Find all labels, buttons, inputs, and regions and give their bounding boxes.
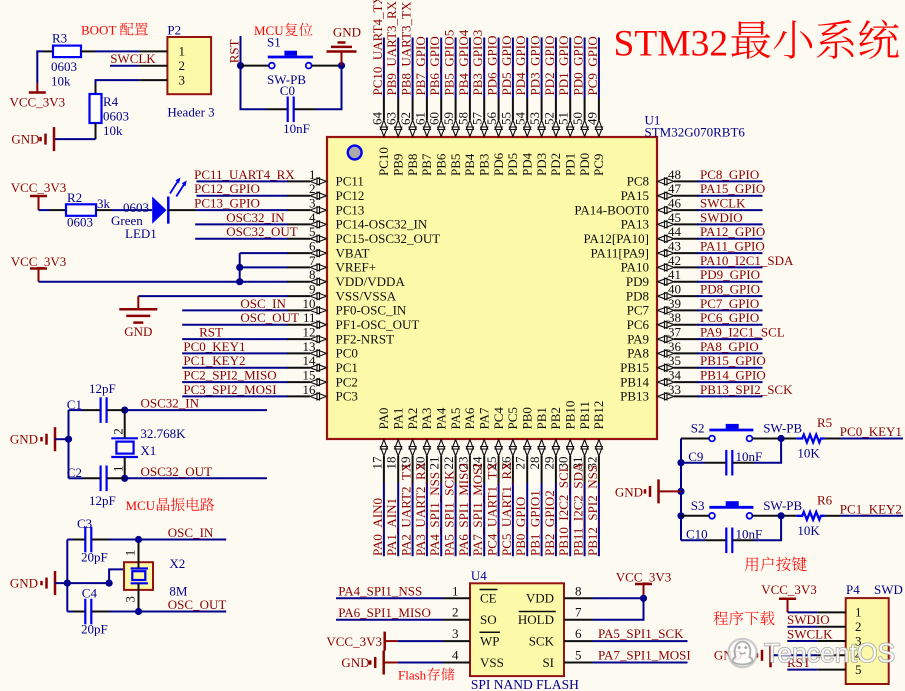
svg-text:6: 6: [309, 239, 316, 254]
svg-text:20pF: 20pF: [81, 550, 108, 565]
U1 pin 9 VSS/VSSA: [287, 282, 397, 304]
svg-text:SW-PB: SW-PB: [763, 498, 802, 513]
switch S2 SW-PB: [691, 421, 803, 442]
svg-text:SWD: SWD: [874, 582, 903, 597]
svg-text:SWDIO: SWDIO: [700, 210, 743, 225]
net label PC11_UART4_RX: [194, 167, 295, 182]
U1 pin 27 PB0: [513, 407, 535, 483]
svg-text:OSC32_OUT: OSC32_OUT: [141, 464, 213, 479]
U1 pin 7 VREF+: [287, 253, 376, 275]
net label OSC32_OUT: [195, 224, 298, 239]
svg-text:56: 56: [484, 112, 499, 126]
svg-text:C0: C0: [280, 83, 295, 98]
U1 pin 51 PD1: [556, 98, 578, 176]
net label PD5_GPIO: [499, 36, 514, 98]
wire S2/S3 left rail: [677, 439, 684, 541]
svg-text:PC8_GPIO: PC8_GPIO: [700, 167, 759, 182]
svg-text:1: 1: [123, 550, 138, 557]
net label PC13_GPIO: [168, 196, 287, 211]
svg-text:36: 36: [668, 339, 682, 354]
net label PA11_GPIO: [697, 239, 765, 254]
svg-text:PB11_I2C2_SDA: PB11_I2C2_SDA: [571, 462, 586, 556]
svg-text:PD2: PD2: [548, 153, 563, 176]
caption 程序下载: [713, 611, 774, 625]
svg-text:PD0_GPIO: PD0_GPIO: [571, 36, 586, 96]
svg-text:9: 9: [309, 282, 316, 297]
svg-text:GND: GND: [124, 324, 152, 339]
U1 pin 14 PC1: [287, 353, 358, 375]
svg-text:1: 1: [111, 466, 126, 473]
net label PB13_SPI2_SCK: [697, 382, 793, 397]
net label PA8_GPIO: [697, 339, 763, 354]
net label PB0_GPIO: [513, 483, 528, 556]
svg-text:17: 17: [369, 456, 384, 470]
svg-text:13: 13: [303, 339, 316, 354]
U1 pin 19 PA2: [398, 408, 420, 483]
svg-text:PB10_I2C2_SCL: PB10_I2C2_SCL: [556, 464, 571, 556]
net label SWDIO (P4): [787, 612, 830, 627]
net label PA6_SPI1_MISO: [336, 605, 443, 620]
wire C0 loop left: [241, 66, 288, 110]
svg-text:VREF+: VREF+: [336, 260, 377, 275]
svg-text:VCC_3V3: VCC_3V3: [326, 634, 382, 649]
net label PA1_AIN1: [384, 483, 399, 556]
net label PA7_SPI1_MOSI: [470, 463, 485, 556]
svg-text:PA0: PA0: [376, 408, 391, 430]
svg-text:STM32: STM32: [614, 24, 729, 65]
crystal X2 8M: [123, 540, 188, 612]
net label OSC_OUT: [182, 310, 299, 325]
svg-text:S2: S2: [691, 421, 705, 436]
svg-text:54: 54: [513, 112, 528, 126]
capacitor C2: [67, 465, 116, 508]
capacitor C0: [280, 83, 310, 136]
U1 pin 16 PC3: [287, 382, 358, 404]
U1 pin 12 PF2-NRST: [287, 325, 394, 347]
net label RST (P4): [787, 655, 818, 670]
U1 pin 28 PB1: [527, 407, 549, 483]
svg-text:R5: R5: [817, 415, 832, 430]
svg-text:5: 5: [575, 648, 582, 663]
caption 用户按键: [745, 557, 807, 572]
svg-text:64: 64: [369, 112, 384, 126]
net label PC2_SPI2_MISO: [182, 368, 287, 383]
svg-text:1: 1: [179, 44, 186, 59]
svg-text:20pF: 20pF: [81, 622, 108, 637]
svg-text:PC2: PC2: [336, 374, 358, 389]
svg-text:53: 53: [527, 112, 542, 125]
svg-text:PA9: PA9: [627, 331, 649, 346]
svg-text:STM32G070RBT6: STM32G070RBT6: [645, 125, 746, 140]
svg-text:GND: GND: [11, 131, 39, 146]
net label SWCLK: [697, 196, 763, 211]
svg-text:PA10_I2C1_SDA: PA10_I2C1_SDA: [700, 253, 794, 268]
svg-text:PC11_UART4_RX: PC11_UART4_RX: [194, 167, 295, 182]
svg-text:SI: SI: [542, 655, 554, 670]
net label OSC_IN: [182, 296, 287, 311]
svg-text:C10: C10: [686, 527, 708, 542]
svg-text:PB1_GPIO1: PB1_GPIO1: [528, 490, 543, 556]
ground (U1 VSS): [119, 309, 157, 339]
svg-text:10k: 10k: [51, 74, 71, 89]
net label OSC32_IN: [195, 210, 287, 225]
wire R2 to LED: [96, 209, 152, 211]
svg-text:PC1_KEY2: PC1_KEY2: [840, 501, 902, 516]
net label PC12_GPIO: [194, 181, 287, 196]
svg-text:PC13: PC13: [336, 202, 365, 217]
svg-text:VSS/VSSA: VSS/VSSA: [336, 288, 397, 303]
svg-text:1: 1: [855, 605, 862, 620]
U1 pin 55 PD5: [498, 98, 520, 176]
svg-text:PD6_GPIO: PD6_GPIO: [485, 36, 500, 96]
svg-text:CE: CE: [480, 591, 497, 606]
wire VSS to GND: [138, 296, 287, 309]
svg-text:PB3_GPIO3: PB3_GPIO3: [470, 30, 485, 96]
svg-text:GND: GND: [615, 485, 643, 500]
svg-text:PB12: PB12: [591, 401, 606, 430]
svg-text:PD2_GPIO: PD2_GPIO: [542, 36, 557, 96]
net label PD3_GPIO: [528, 36, 543, 98]
net label SWCLK: [110, 51, 156, 66]
svg-text:PB7_GPIO: PB7_GPIO: [413, 36, 428, 95]
svg-text:PB12_SPI2_NSS: PB12_SPI2_NSS: [585, 465, 600, 556]
svg-text:WP: WP: [480, 633, 500, 648]
capacitor C3: [77, 516, 108, 565]
capacitor C4: [81, 586, 108, 637]
wire S2 left: [681, 438, 709, 440]
svg-text:PC7_GPIO: PC7_GPIO: [700, 296, 759, 311]
svg-text:PC1: PC1: [336, 360, 358, 375]
svg-text:PC9_GPIO: PC9_GPIO: [585, 36, 600, 95]
svg-text:60: 60: [427, 112, 442, 125]
svg-text:PA5_SPI1_SCK: PA5_SPI1_SCK: [442, 470, 457, 556]
net label PB7_GPIO: [413, 36, 428, 98]
net label PC3_SPI2_MOSI: [182, 382, 287, 397]
net label PA4_SPI1_NSS: [427, 472, 442, 556]
U1 pin 30 PB10: [556, 401, 578, 483]
svg-text:3: 3: [452, 626, 459, 641]
wire S2 right to R5: [753, 435, 797, 442]
svg-text:LED1: LED1: [125, 226, 157, 241]
svg-text:R2: R2: [67, 190, 82, 205]
net label PC0_KEY1: [825, 424, 903, 439]
svg-text:PD0: PD0: [577, 153, 592, 176]
U1 pin 40 PD8: [626, 282, 699, 304]
caption MCU复位: [254, 23, 312, 38]
svg-text:45: 45: [668, 210, 681, 225]
U1 pin 47 PA15: [621, 181, 699, 203]
svg-text:PA10: PA10: [621, 260, 649, 275]
net label PC9_GPIO: [585, 36, 600, 98]
svg-text:35: 35: [668, 353, 681, 368]
svg-text:7: 7: [309, 253, 316, 268]
svg-text:18: 18: [384, 457, 399, 470]
wire X2 left rail: [64, 540, 85, 612]
svg-text:R3: R3: [52, 31, 67, 46]
U1 pin 20 PA3: [412, 408, 434, 483]
svg-text:PB15: PB15: [620, 360, 649, 375]
svg-text:0603: 0603: [67, 215, 93, 230]
U1 pin 39 PC7: [627, 296, 699, 318]
svg-text:TencentOS: TencentOS: [764, 638, 895, 668]
wire U4 VDD: [593, 595, 648, 602]
svg-text:PC14-OSC32_IN: PC14-OSC32_IN: [336, 217, 428, 232]
svg-text:Header 3: Header 3: [167, 105, 214, 120]
svg-text:PD5_GPIO: PD5_GPIO: [499, 36, 514, 96]
svg-text:PB9: PB9: [391, 154, 406, 176]
wire X2 case to GND: [106, 569, 125, 586]
svg-text:PB4_GPIO4: PB4_GPIO4: [456, 29, 471, 95]
svg-text:49: 49: [584, 112, 599, 125]
resistor R6: [796, 492, 832, 538]
svg-text:R6: R6: [817, 492, 833, 507]
svg-text:MCU: MCU: [126, 498, 156, 513]
net label PA6_SPI1_MISO: [456, 463, 471, 556]
resistor R4: [90, 94, 130, 138]
svg-text:PA11_GPIO: PA11_GPIO: [700, 239, 765, 254]
svg-text:62: 62: [398, 112, 413, 125]
svg-text:PD9_GPIO: PD9_GPIO: [700, 267, 760, 282]
svg-text:PD6: PD6: [491, 152, 506, 176]
svg-text:PD1: PD1: [563, 153, 578, 176]
svg-text:GND: GND: [333, 25, 361, 40]
wire VCC to R3: [37, 51, 53, 83]
svg-text:3: 3: [309, 196, 316, 211]
IC U1 STM32G070RBT6 body: [327, 113, 745, 440]
wire R4 to GND: [54, 123, 96, 139]
svg-text:PF1-OSC_OUT: PF1-OSC_OUT: [336, 317, 420, 332]
svg-text:40: 40: [668, 282, 681, 297]
U1 pin 15 PC2: [287, 368, 358, 390]
svg-text:PB5: PB5: [448, 154, 463, 176]
svg-text:8: 8: [575, 583, 582, 598]
svg-text:P4: P4: [846, 582, 860, 597]
svg-text:PB13_SPI2_SCK: PB13_SPI2_SCK: [700, 382, 793, 397]
svg-text:PA12_GPIO: PA12_GPIO: [700, 224, 765, 239]
svg-text:4: 4: [309, 210, 316, 225]
caption Flash存储: [398, 668, 455, 683]
svg-text:37: 37: [668, 325, 682, 340]
header P4: [818, 582, 903, 684]
svg-text:PC10: PC10: [376, 147, 391, 176]
net label SWCLK (P4): [787, 626, 833, 641]
svg-text:S1: S1: [267, 35, 281, 50]
svg-text:43: 43: [668, 239, 681, 254]
svg-text:PB1: PB1: [534, 407, 549, 429]
U1 pin 4 PC14-OSC32_IN: [287, 210, 428, 232]
svg-text:X2: X2: [169, 556, 185, 571]
svg-text:PC0_KEY1: PC0_KEY1: [183, 339, 245, 354]
svg-text:2: 2: [452, 605, 459, 620]
svg-text:OSC_OUT: OSC_OUT: [240, 310, 299, 325]
svg-text:VDD/VDDA: VDD/VDDA: [336, 274, 406, 289]
U1 pin 38 PC6: [627, 310, 699, 332]
net label PB1_GPIO1: [528, 483, 543, 556]
U1 pin 33 PB13: [620, 382, 698, 404]
svg-text:SWDIO: SWDIO: [787, 612, 830, 627]
U1 pin 46 PA14-BOOT0: [574, 196, 698, 218]
U1 pin 29 PB2: [541, 407, 563, 483]
svg-text:2: 2: [855, 619, 862, 634]
svg-text:PA6_SPI1_MISO: PA6_SPI1_MISO: [338, 605, 431, 620]
net label PB9_UART3_RX: [384, 0, 399, 98]
svg-text:8: 8: [309, 267, 316, 282]
U1 pin 37 PA9: [627, 325, 698, 347]
svg-text:27: 27: [513, 456, 528, 470]
U1 pin 50 PD0: [570, 98, 592, 176]
net label PB5_GPIO5: [442, 30, 457, 98]
net label PC8_GPIO: [697, 167, 763, 182]
svg-text:21: 21: [427, 457, 442, 470]
svg-text:PC4_UART1_TX: PC4_UART1_TX: [485, 462, 500, 556]
title STM32最小系统: [614, 20, 899, 65]
svg-text:PA7: PA7: [477, 407, 492, 429]
net label PD6_GPIO: [485, 36, 500, 98]
resistor R5: [796, 415, 832, 461]
svg-text:PB6_GPIO: PB6_GPIO: [427, 36, 442, 95]
svg-text:S3: S3: [691, 498, 705, 513]
wire C9 right: [733, 439, 781, 463]
svg-text:3: 3: [179, 72, 186, 87]
U1 pin 44 PA12[PA10]: [583, 224, 698, 246]
svg-text:OSC32_IN: OSC32_IN: [141, 396, 200, 411]
svg-text:PA14-BOOT0: PA14-BOOT0: [574, 202, 649, 217]
svg-text:61: 61: [412, 112, 427, 125]
net label PC5_UART1_RX: [499, 461, 514, 556]
svg-text:OSC_OUT: OSC_OUT: [168, 597, 227, 612]
svg-text:63: 63: [384, 112, 399, 125]
svg-text:VCC_3V3: VCC_3V3: [11, 254, 67, 269]
svg-text:3: 3: [123, 596, 138, 603]
U1 pin 42 PA10: [621, 253, 699, 275]
svg-text:PC12: PC12: [336, 188, 365, 203]
svg-text:PC3: PC3: [336, 389, 358, 404]
svg-text:38: 38: [668, 310, 681, 325]
svg-text:PB8_UART3_TX: PB8_UART3_TX: [399, 1, 414, 95]
svg-text:PB5_GPIO5: PB5_GPIO5: [442, 30, 457, 96]
svg-text:PD3: PD3: [534, 153, 549, 176]
svg-text:X1: X1: [140, 443, 156, 458]
IC U4 SPI NAND FLASH: [443, 568, 593, 691]
U1 pin 24 PA7: [470, 407, 492, 483]
U1 pin 32 PB12: [584, 401, 606, 483]
svg-text:32.768K: 32.768K: [140, 426, 186, 441]
svg-text:PA7_SPI1_MOSI: PA7_SPI1_MOSI: [470, 463, 485, 556]
svg-text:SWCLK: SWCLK: [110, 51, 156, 66]
svg-text:PB0_GPIO: PB0_GPIO: [513, 497, 528, 556]
U1 pin 53 PD3: [527, 98, 549, 176]
U1 pin 36 PA8: [627, 339, 698, 361]
svg-text:PA1_AIN1: PA1_AIN1: [384, 498, 399, 556]
U1 pin 45 PA13: [621, 210, 699, 232]
svg-text:PC8: PC8: [627, 174, 649, 189]
svg-text:PA8_GPIO: PA8_GPIO: [700, 339, 759, 354]
svg-text:41: 41: [668, 267, 681, 282]
U1 pin 11 PF1-OSC_OUT: [287, 310, 419, 332]
U1 pin 35 PB15: [620, 353, 698, 375]
svg-text:VBAT: VBAT: [336, 245, 370, 260]
net label OSC_OUT (crystal): [92, 597, 227, 615]
U1 pin 25 PC4: [484, 407, 506, 483]
net label PC10_UART4_TX: [370, 0, 385, 98]
svg-text:BOOT: BOOT: [81, 23, 119, 38]
wire RST junction to S1: [237, 62, 269, 69]
net label PD9_GPIO: [697, 267, 763, 282]
U1 pin 63 PB9: [384, 98, 406, 176]
net label PD1_GPIO: [556, 36, 571, 98]
svg-text:44: 44: [668, 224, 682, 239]
U1 pin 3 PC13: [287, 196, 364, 218]
svg-text:PA5_SPI1_SCK: PA5_SPI1_SCK: [598, 626, 684, 641]
svg-text:11: 11: [303, 310, 316, 325]
svg-text:PB2: PB2: [548, 407, 563, 429]
U1 pin 59 PB5: [441, 98, 463, 176]
svg-text:PD3_GPIO: PD3_GPIO: [528, 36, 543, 96]
power port VCC_3V3 (U1 VBAT/VREF/VDD): [11, 254, 67, 282]
svg-text:PA4_SPI1_NSS: PA4_SPI1_NSS: [338, 584, 422, 599]
U1 pin 22 PA5: [441, 408, 463, 483]
U1 pin 1 PC11: [287, 167, 364, 189]
svg-text:55: 55: [498, 112, 513, 125]
ground (X1): [10, 427, 69, 451]
net label OSC_IN (crystal): [92, 525, 226, 543]
svg-text:47: 47: [668, 181, 682, 196]
net label PB4_GPIO4: [456, 29, 471, 98]
svg-text:0603: 0603: [103, 109, 129, 124]
svg-text:PC0: PC0: [336, 346, 358, 361]
net label PA0_AIN0: [370, 483, 385, 556]
svg-text:10K: 10K: [797, 446, 820, 461]
net label RST: [182, 325, 287, 340]
svg-text:PB7: PB7: [419, 153, 434, 176]
U1 pin 34 PB14: [620, 368, 698, 390]
svg-text:PB3: PB3: [477, 154, 492, 176]
svg-text:PC12_GPIO: PC12_GPIO: [194, 181, 260, 196]
switch S1 SW-PB: [267, 35, 313, 88]
wire S3 left: [681, 515, 709, 517]
watermark TencentOS: [728, 638, 895, 668]
net label PB10_I2C2_SCL: [556, 464, 571, 556]
svg-text:OSC_IN: OSC_IN: [168, 525, 214, 540]
U1 pin 31 PB11: [570, 401, 592, 483]
U1 pin 18 PA1: [384, 408, 406, 483]
wire P2 pin3 to R4: [96, 80, 140, 94]
svg-text:C4: C4: [82, 586, 98, 601]
net label OSC32_OUT (crystal): [107, 464, 267, 482]
svg-text:50: 50: [570, 112, 585, 125]
svg-text:46: 46: [668, 196, 682, 211]
caption BOOT 配置: [81, 23, 148, 38]
svg-text:10nF: 10nF: [736, 527, 763, 542]
svg-text:PB14_GPIO: PB14_GPIO: [700, 368, 766, 383]
svg-text:39: 39: [668, 296, 681, 311]
capacitor C1: [67, 381, 116, 423]
net label SWDIO: [697, 210, 763, 225]
svg-text:Flash: Flash: [398, 668, 427, 683]
ground (U4 VSS): [341, 651, 443, 675]
svg-text:33: 33: [668, 382, 681, 397]
svg-text:0603: 0603: [51, 59, 77, 74]
crystal X1 32.768K: [111, 410, 187, 478]
caption MCU晶振电路: [126, 498, 215, 513]
svg-text:PC13_GPIO: PC13_GPIO: [194, 196, 260, 211]
U1 pin 10 PF0-OSC_IN: [287, 296, 407, 318]
svg-text:SWCLK: SWCLK: [700, 196, 746, 211]
svg-text:GND: GND: [341, 655, 369, 670]
net label PC4_UART1_TX: [485, 462, 500, 557]
svg-text:PA7_SPI1_MOSI: PA7_SPI1_MOSI: [598, 648, 691, 663]
U1 pin 49 PC9: [584, 98, 606, 176]
